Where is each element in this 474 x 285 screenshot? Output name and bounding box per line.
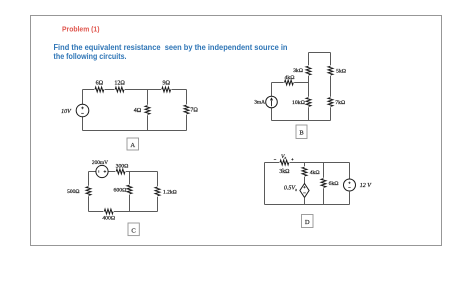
circuit A: top wire segment 12ohm to middle node [125, 89, 148, 91]
label 12V (circuit D source value) [360, 183, 373, 189]
circuit A: right branch upper wire [186, 90, 188, 105]
circuit D: top wire 3k to dependent-source node [290, 162, 305, 164]
circuit D: bottom wire [265, 204, 350, 206]
label 7 ohm (circuit A) [190, 108, 198, 114]
resistor 6k ohm (circuit D) [321, 179, 326, 188]
label 5k ohm (circuit B) [336, 69, 346, 75]
circuit A: middle branch upper wire [147, 90, 149, 105]
circuit D: branch wire top to 4k [304, 163, 306, 167]
circuit B: right branch wire above 5k [330, 53, 332, 66]
circuit A: top wire segment middle node to 9ohm [148, 89, 162, 91]
svg-text:6Ω: 6Ω [96, 80, 104, 86]
label 3mA (circuit B source value) [254, 100, 265, 106]
svg-text:7Ω: 7Ω [190, 108, 198, 114]
resistor 10k ohm (circuit B) [306, 98, 311, 107]
svg-text:200mV: 200mV [92, 160, 108, 166]
svg-text:300Ω: 300Ω [116, 163, 129, 169]
circuit D: branch wire top to 6k [323, 163, 325, 178]
circuit D: wire 6k to bottom [323, 188, 325, 204]
circuit C: bottom wire 400ohm to right corner [114, 211, 158, 213]
polarity plus mark for Vx (circuit D) [291, 158, 293, 160]
label 4k ohm (circuit B) [285, 75, 295, 81]
resistor 500 ohm (circuit C) [86, 187, 91, 196]
svg-text:7kΩ: 7kΩ [335, 100, 345, 106]
svg-text:3mA: 3mA [254, 100, 265, 106]
current source 3mA (circuit B) [266, 96, 278, 108]
label 12 ohm (circuit A) [114, 80, 125, 86]
circuit C: top wire source to 300ohm [108, 171, 115, 173]
resistor 3k ohm (circuit D) [280, 160, 289, 165]
page border frame [31, 16, 442, 246]
resistor 4k ohm (circuit D) [302, 167, 307, 176]
svg-text:B: B [299, 130, 304, 137]
svg-text:6kΩ: 6kΩ [329, 181, 339, 187]
svg-text:4kΩ: 4kΩ [310, 170, 320, 176]
circuit D: left branch wire [264, 163, 266, 205]
circuit D: wire 4k to dependent source [304, 177, 306, 184]
voltage source 12V (circuit D) [344, 179, 356, 191]
resistor 1.2k ohm (circuit C) [155, 187, 160, 196]
circuit D: top wire left corner to 3k resistor [265, 162, 280, 164]
circuit A: right branch lower wire [186, 115, 188, 131]
label 6 ohm (circuit A) [96, 80, 104, 86]
circuit A: top wire segment source-to-R 6ohm [83, 89, 95, 91]
label 1.2k ohm (circuit C) [163, 189, 177, 195]
circuit B: middle branch wire below 10k [308, 107, 310, 120]
svg-text:600Ω: 600Ω [114, 188, 127, 194]
circuit C: top wire left corner to source [89, 171, 96, 173]
circuit C: top wire middle node to right corner [130, 171, 158, 173]
svg-text:D: D [305, 219, 310, 226]
circuit label box B [296, 125, 307, 139]
problem statement line 1 [54, 43, 288, 52]
svg-text:3kΩ: 3kΩ [293, 68, 303, 74]
label 9 ohm (circuit A) [162, 80, 170, 86]
svg-text:1.2kΩ: 1.2kΩ [163, 189, 177, 195]
circuit A: top wire segment 9ohm to right corner [171, 89, 186, 91]
svg-text:12 V: 12 V [360, 183, 373, 189]
svg-text:10V: 10V [61, 109, 72, 115]
svg-text:0.5Vx: 0.5Vx [284, 186, 297, 192]
svg-text:5kΩ: 5kΩ [336, 69, 346, 75]
circuit D: right branch wire source to bottom [349, 191, 351, 205]
resistor 300 ohm (circuit C) [116, 169, 125, 174]
svg-text:500Ω: 500Ω [67, 189, 79, 195]
label 0.5Vx (circuit D dependent source value) [284, 186, 297, 192]
circuit B: middle branch wire above 3k [308, 53, 310, 66]
svg-text:C: C [131, 227, 135, 234]
title: Problem (1) [62, 24, 100, 33]
label 600 ohm (circuit C) [114, 188, 127, 194]
label 500 ohm (circuit C) [67, 189, 79, 195]
resistor 7 ohm (circuit A) [184, 105, 189, 114]
circuit A: middle branch lower wire [147, 115, 149, 130]
dependent source 0.5Vx (circuit D, diamond) [300, 184, 309, 198]
circuit label box A [127, 138, 139, 150]
resistor 400 ohm (circuit C) [104, 209, 113, 214]
circuit D: top wire 6k node to right corner [324, 162, 350, 164]
resistor 3k ohm (circuit B) [306, 66, 311, 75]
label 4 ohm (circuit A) [134, 108, 142, 114]
resistor 6 ohm (circuit A) [95, 87, 104, 92]
resistor 4k ohm (circuit B) [285, 80, 294, 85]
voltage source 200mV (circuit C) [96, 165, 108, 177]
circuit C: left branch upper wire [88, 172, 90, 186]
label 3k ohm (circuit D) [279, 169, 290, 175]
circuit B: bottom wire [272, 120, 331, 122]
svg-text:the following circuits.: the following circuits. [54, 52, 127, 61]
svg-text:9Ω: 9Ω [162, 80, 170, 86]
label 4k ohm (circuit D) [310, 170, 320, 176]
circuit A: bottom wire [83, 130, 187, 132]
resistor 4 ohm (circuit A) [145, 106, 150, 115]
problem statement line 2 [54, 52, 127, 61]
circuit B: right branch wire below 7k [330, 107, 332, 120]
voltage source 10V (circuit A) [76, 104, 89, 117]
resistor 9 ohm (circuit A) [162, 87, 171, 92]
label 7k ohm (circuit B) [335, 100, 345, 106]
circuit label box C [128, 223, 139, 236]
label 3k ohm (circuit B) [293, 68, 303, 74]
resistor 12 ohm (circuit A) [115, 87, 124, 92]
svg-text:4kΩ: 4kΩ [285, 75, 295, 81]
label 10k ohm (circuit B) [292, 100, 305, 106]
circuit B: horizontal wire 4k to middle branch [294, 82, 308, 84]
svg-text:3kΩ: 3kΩ [279, 169, 290, 175]
circuit D: wire dependent source to bottom [304, 198, 306, 205]
label 200mV (circuit C source value) [92, 160, 108, 166]
label 400 ohm (circuit C) [102, 216, 115, 222]
label 300 ohm (circuit C) [116, 163, 129, 169]
circuit label box D [302, 215, 314, 228]
circuit C: bottom wire left corner to 400ohm [89, 211, 104, 213]
resistor 600 ohm (circuit C) [127, 185, 132, 194]
svg-text:Problem (1): Problem (1) [62, 24, 100, 33]
circuit D: top wire dependent node to 6k node [305, 162, 324, 164]
label 10V (circuit A source value) [61, 109, 72, 115]
svg-text:Vx: Vx [281, 154, 286, 160]
circuit D: right branch wire top to source [349, 163, 351, 180]
circuit C: middle branch upper wire [129, 172, 131, 185]
circuit B: horizontal wire source to 4k resistor [272, 82, 284, 84]
circuit B: wire source top to middle horizontal wire [271, 83, 273, 97]
circuit B: top rail [309, 52, 331, 54]
svg-text:10kΩ: 10kΩ [292, 100, 305, 106]
circuit C: right branch lower wire [157, 197, 159, 212]
resistor 7k ohm (circuit B) [328, 98, 333, 107]
circuit C: right branch upper wire [157, 172, 159, 187]
circuit A: wire source top to top rail [82, 90, 84, 105]
polarity minus mark for Vx (circuit D) [274, 159, 276, 161]
circuit B: right branch wire 5k to 7k [330, 76, 332, 97]
label 6k ohm (circuit D) [329, 181, 339, 187]
circuit B: wire source bottom to bottom rail [271, 108, 273, 121]
circuit B: middle branch wire 3k to 10k [308, 76, 310, 97]
svg-text:400Ω: 400Ω [102, 216, 115, 222]
resistor 5k ohm (circuit B) [328, 66, 333, 75]
svg-text:A: A [130, 142, 135, 149]
circuit A: wire source bottom to bottom rail [82, 117, 84, 131]
label Vx (circuit D node voltage) [281, 154, 286, 160]
circuit A: top wire segment between 6ohm and 12ohm [105, 89, 115, 91]
circuit C: top wire 300ohm to middle node [126, 171, 130, 173]
circuit C: middle branch lower wire [129, 195, 131, 212]
circuit C: left branch lower wire [88, 196, 90, 211]
svg-text:12Ω: 12Ω [114, 80, 125, 86]
svg-text:4Ω: 4Ω [134, 108, 142, 114]
